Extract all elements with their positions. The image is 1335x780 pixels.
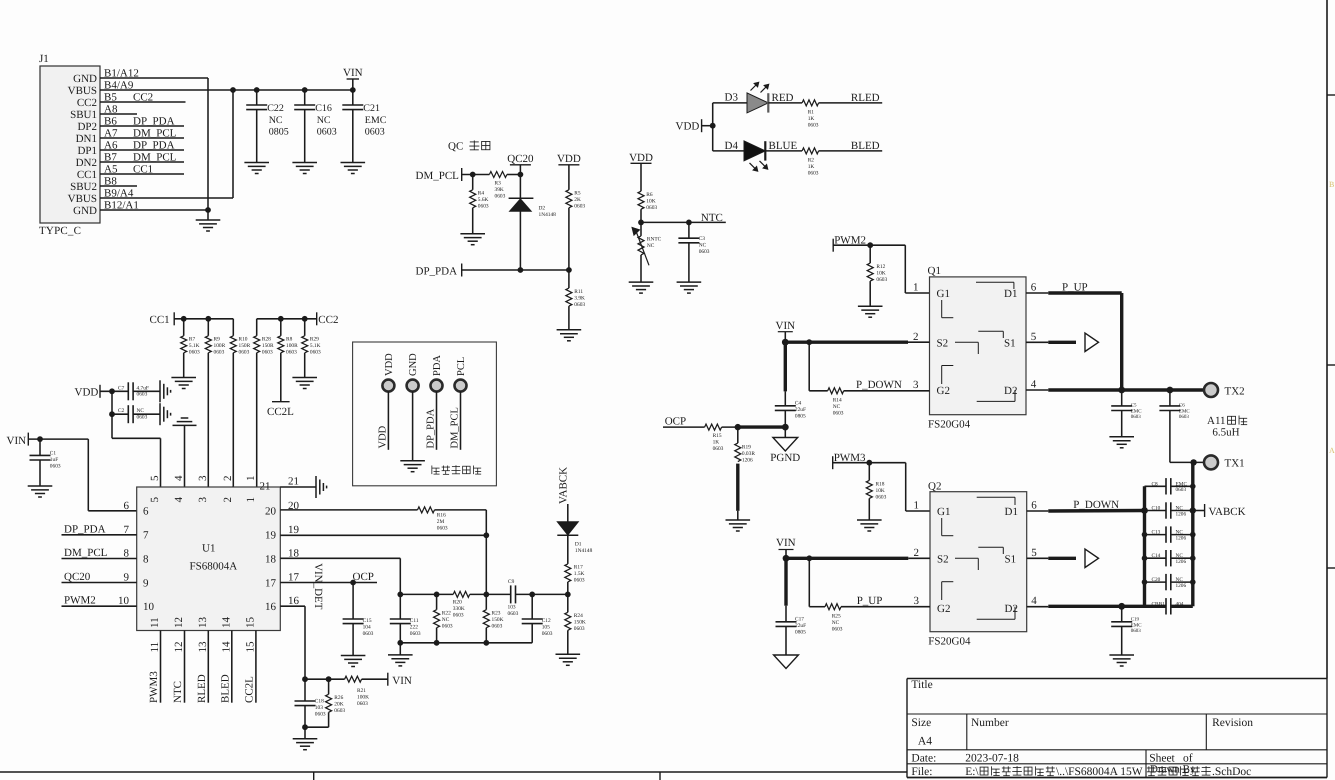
junction VBUS rail corner <box>230 87 236 93</box>
wire R16 to node <box>435 509 487 511</box>
svg-text:0805: 0805 <box>795 414 806 420</box>
svg-text:100K: 100K <box>357 695 369 701</box>
resistor R9 <box>207 319 209 336</box>
wire PWM3 to G1 <box>905 463 907 511</box>
Q2 internal graphics <box>977 496 1015 498</box>
svg-text:A4: A4 <box>918 736 932 748</box>
ground <box>556 653 581 655</box>
wire OCP thick <box>738 425 786 428</box>
capacitor C8 <box>1145 485 1167 487</box>
resistor R24 <box>567 594 569 612</box>
svg-text:U1: U1 <box>202 543 215 555</box>
svg-text:C18: C18 <box>315 699 324 705</box>
test point VDD <box>382 380 394 392</box>
svg-text:R7: R7 <box>189 337 196 343</box>
svg-text:330K: 330K <box>453 606 465 612</box>
resistor R7 <box>183 319 185 336</box>
ground (flipped) pin4 <box>173 424 197 426</box>
svg-text:103: 103 <box>508 605 516 611</box>
junction <box>181 316 187 322</box>
svg-text:1K: 1K <box>808 164 815 170</box>
test point PCL <box>455 380 467 392</box>
wire CC1 <box>174 318 233 320</box>
capacitor C12 <box>531 594 533 619</box>
resistor R8 <box>280 319 282 336</box>
IC U1 FS68004A <box>137 487 281 631</box>
svg-text:1K: 1K <box>713 440 720 446</box>
pin DP1 / A6 wire <box>100 149 184 151</box>
junction <box>302 724 308 730</box>
svg-text:B5: B5 <box>104 92 117 104</box>
svg-text:PDA: PDA <box>432 355 443 376</box>
wire cap bank right rail (thick) <box>1191 462 1194 606</box>
pin SBU2 / B8 wire <box>100 185 137 187</box>
svg-text:3.9K: 3.9K <box>574 296 585 302</box>
svg-text:R1: R1 <box>808 110 815 116</box>
ground <box>207 210 209 220</box>
junction <box>397 592 403 598</box>
junction <box>302 676 308 682</box>
junction <box>302 316 308 322</box>
ground <box>858 305 883 307</box>
svg-text:4: 4 <box>1031 379 1037 391</box>
svg-text:DP_PDA: DP_PDA <box>416 266 458 278</box>
svg-text:R6: R6 <box>646 192 653 198</box>
svg-text:R19: R19 <box>742 445 751 451</box>
programming reserve box <box>353 342 497 486</box>
svg-text:7: 7 <box>124 524 130 536</box>
resistor R16 <box>418 507 435 513</box>
svg-text:G2: G2 <box>937 603 950 615</box>
svg-text:Number: Number <box>971 717 1009 729</box>
svg-text:0603: 0603 <box>286 350 297 356</box>
svg-text:NC: NC <box>137 408 145 414</box>
svg-text:150K: 150K <box>492 617 504 623</box>
wire VIN to pin6 <box>87 439 89 511</box>
ground <box>293 738 318 740</box>
svg-text:C2: C2 <box>118 408 125 414</box>
svg-text:7: 7 <box>143 530 149 542</box>
port VIN <box>387 673 389 686</box>
svg-text:9: 9 <box>124 572 130 584</box>
svg-text:R4: R4 <box>478 191 485 197</box>
svg-text:104: 104 <box>363 625 371 631</box>
ground <box>341 655 366 657</box>
svg-text:0603: 0603 <box>137 392 148 398</box>
svg-text:CC1: CC1 <box>133 164 153 176</box>
wire BLED <box>819 150 883 152</box>
pin 11 wire (bottom) <box>160 631 162 703</box>
svg-text:FS20G04: FS20G04 <box>928 419 971 431</box>
ground <box>388 654 413 656</box>
svg-text:19: 19 <box>288 524 300 536</box>
svg-text:10K: 10K <box>876 488 885 494</box>
power ground PGND (Q1) <box>784 427 786 437</box>
svg-text:R20: R20 <box>453 600 462 606</box>
resistor R29 <box>304 319 306 336</box>
svg-text:1: 1 <box>913 282 919 294</box>
junction <box>735 424 741 430</box>
svg-text:D4: D4 <box>725 140 739 152</box>
svg-text:0603: 0603 <box>699 249 710 255</box>
svg-text:3: 3 <box>197 475 209 481</box>
svg-text:10K: 10K <box>876 271 885 277</box>
svg-text:S2: S2 <box>937 337 949 349</box>
svg-text:D3: D3 <box>725 92 739 104</box>
svg-text:5: 5 <box>1031 331 1037 343</box>
svg-text:CC1: CC1 <box>77 169 97 181</box>
pin 7 wire (left) <box>62 534 137 536</box>
svg-text:.SchDoc: .SchDoc <box>1212 766 1251 778</box>
junction <box>806 339 812 345</box>
wire pin2 column <box>232 353 234 487</box>
svg-text:105: 105 <box>542 625 550 631</box>
svg-text:CC2L: CC2L <box>243 676 255 703</box>
svg-text:NC: NC <box>699 243 707 249</box>
junction <box>1190 484 1196 490</box>
svg-text:QC20: QC20 <box>507 153 534 165</box>
svg-text:1: 1 <box>245 497 257 503</box>
svg-text:B4/A9: B4/A9 <box>104 80 134 92</box>
svg-text:A6: A6 <box>104 140 118 152</box>
svg-text:0603: 0603 <box>492 624 503 630</box>
svg-text:12: 12 <box>173 642 185 653</box>
junction <box>566 267 572 273</box>
capacitor C17 <box>776 621 797 623</box>
svg-text:1.5K: 1.5K <box>574 571 585 577</box>
wire PDA test point <box>436 391 438 450</box>
svg-text:150K: 150K <box>574 620 586 626</box>
svg-text:C21: C21 <box>363 103 380 114</box>
pin 15 wire (bottom) <box>255 631 257 703</box>
junction <box>518 172 524 178</box>
pin CC2 / B5 wire <box>100 101 186 103</box>
wire VIN to C4 (thick) <box>784 342 787 391</box>
svg-text:Size: Size <box>911 717 931 729</box>
wire P_DOWN gate <box>808 342 810 391</box>
svg-text:0805: 0805 <box>269 127 289 138</box>
wire NTC <box>641 221 726 223</box>
wire VDD to pin5 <box>111 414 113 438</box>
MOSFET Q2 FS20G04 <box>930 492 1027 632</box>
svg-text:R22: R22 <box>442 611 451 617</box>
pad TX1 <box>1204 455 1218 469</box>
wire DP_PDA <box>462 269 569 271</box>
svg-text:0603: 0603 <box>442 624 453 630</box>
capacitor C19 <box>1121 606 1123 622</box>
junction <box>1190 459 1196 465</box>
svg-text:0805: 0805 <box>795 630 806 636</box>
resistor R21 <box>345 676 362 682</box>
capacitor C9 <box>510 585 512 603</box>
svg-text:Q2: Q2 <box>928 481 941 493</box>
svg-text:VABCK: VABCK <box>1209 506 1246 518</box>
svg-text:File:: File: <box>911 766 932 778</box>
wire VDD to C2 <box>111 391 113 414</box>
svg-text:0603: 0603 <box>317 127 337 138</box>
resistor R25 <box>825 604 841 610</box>
svg-text:18: 18 <box>265 553 277 565</box>
label programming reserve (Chinese) <box>432 465 481 474</box>
wire OCP <box>663 426 705 428</box>
svg-text:16: 16 <box>265 601 277 613</box>
svg-text:15: 15 <box>244 617 256 629</box>
svg-text:0603: 0603 <box>542 631 553 637</box>
svg-text:0603: 0603 <box>437 526 448 532</box>
svg-text:DP_PDA: DP_PDA <box>426 408 437 448</box>
svg-text:R2: R2 <box>808 158 815 164</box>
svg-text:0603: 0603 <box>495 194 506 200</box>
svg-text:6: 6 <box>1031 500 1037 512</box>
test point GND <box>407 380 419 392</box>
ground <box>460 233 485 235</box>
wire PWM2 to G1 <box>904 245 906 293</box>
junction <box>483 640 489 646</box>
capacitor C6 <box>1169 390 1171 406</box>
svg-text:0603: 0603 <box>1179 414 1190 420</box>
wire to R2 <box>765 150 802 152</box>
pin 8 wire (left) <box>62 558 137 560</box>
svg-text:D1: D1 <box>575 542 582 548</box>
svg-text:NTC: NTC <box>172 681 184 703</box>
no-connect arrow S1 <box>1085 333 1099 351</box>
capacitor C13 <box>1145 534 1167 536</box>
svg-text:C22: C22 <box>267 103 284 114</box>
ground <box>341 162 366 164</box>
wire VDD test point <box>387 391 389 450</box>
pin 18 wire <box>280 557 400 559</box>
svg-text:2: 2 <box>913 331 919 343</box>
svg-text:S1: S1 <box>1005 553 1017 565</box>
svg-text:BLED: BLED <box>219 674 231 703</box>
svg-text:13: 13 <box>197 641 209 653</box>
ground <box>726 519 751 521</box>
svg-text:PWM2: PWM2 <box>64 595 96 607</box>
svg-text:3: 3 <box>913 379 919 391</box>
pin DN2 / B7 wire <box>100 161 184 163</box>
pin CC1 / A5 wire <box>100 173 184 175</box>
svg-text:FS20G04: FS20G04 <box>928 636 971 648</box>
junction <box>782 339 789 346</box>
wire VIN to C17 (thick) <box>784 558 787 605</box>
svg-text:C3: C3 <box>699 236 706 242</box>
pin 14 wire (bottom) <box>231 631 233 703</box>
svg-text:VDD: VDD <box>557 153 581 165</box>
svg-text:DP_PDA: DP_PDA <box>133 116 175 128</box>
svg-text:QC20: QC20 <box>64 571 91 583</box>
capacitor C1 <box>39 439 41 455</box>
junction <box>782 424 789 431</box>
ground <box>677 281 702 283</box>
svg-text:2: 2 <box>222 497 234 503</box>
LED D3 RED <box>713 102 747 104</box>
svg-text:NC: NC <box>442 617 450 623</box>
wire to VIN port <box>362 678 388 680</box>
svg-text:VDD: VDD <box>384 353 395 376</box>
svg-text:4: 4 <box>1031 595 1037 607</box>
svg-text:C1: C1 <box>50 451 57 457</box>
svg-text:21: 21 <box>288 476 299 488</box>
junction <box>867 242 873 248</box>
wire P_UP gate <box>808 558 810 606</box>
power ground PGND (Q2) <box>774 655 799 669</box>
svg-text:0603: 0603 <box>357 701 368 707</box>
svg-text:P_UP: P_UP <box>1062 282 1088 294</box>
svg-text:2023-07-18: 2023-07-18 <box>965 752 1019 764</box>
svg-text:0603: 0603 <box>713 446 724 452</box>
svg-text:TX1: TX1 <box>1225 458 1245 470</box>
svg-text:C12: C12 <box>542 618 551 624</box>
pin 21 wire <box>280 486 316 488</box>
svg-text:CC2: CC2 <box>77 97 97 109</box>
svg-text:EMC: EMC <box>1131 408 1143 414</box>
svg-text:SBU1: SBU1 <box>70 109 97 121</box>
resistor R15 <box>705 424 722 430</box>
svg-text:NC: NC <box>317 115 331 126</box>
junction <box>483 592 489 598</box>
wire pin4 column <box>184 425 186 487</box>
svg-text:C13: C13 <box>1152 530 1161 536</box>
svg-text:6: 6 <box>1031 282 1037 294</box>
svg-text:CBB1: CBB1 <box>1152 601 1166 607</box>
capacitor C20 <box>1145 581 1167 583</box>
junction <box>565 592 571 598</box>
svg-text:CC2: CC2 <box>133 92 153 104</box>
svg-text:CC2L: CC2L <box>267 406 294 418</box>
capacitor C15 <box>352 583 354 620</box>
svg-text:103: 103 <box>315 705 323 711</box>
pin 10 wire (left) <box>62 605 137 607</box>
wire CC2L stub <box>280 353 282 402</box>
svg-text:0603: 0603 <box>808 171 819 177</box>
wire VIN S2 (thick) <box>786 557 908 560</box>
resistor R2 <box>802 148 819 154</box>
wire D2 row (thick) <box>1027 606 1049 608</box>
junction <box>1142 555 1148 561</box>
junction <box>1190 507 1196 513</box>
resistor R28 <box>256 319 258 336</box>
svg-text:C8: C8 <box>1152 481 1159 487</box>
wire RLED <box>819 102 883 104</box>
svg-text:NC: NC <box>647 243 655 249</box>
svg-text:R9: R9 <box>214 337 221 343</box>
svg-text:G1: G1 <box>937 288 950 300</box>
svg-text:A11: A11 <box>1207 415 1226 427</box>
svg-text:R3: R3 <box>495 181 502 187</box>
junction <box>1142 532 1148 538</box>
wire D2 to TX2 (thick) <box>1026 389 1048 391</box>
Q1 internal graphics <box>976 281 1014 283</box>
svg-text:6: 6 <box>143 506 149 518</box>
svg-text:11: 11 <box>149 642 161 653</box>
svg-text:14: 14 <box>220 641 232 653</box>
svg-text:0603: 0603 <box>363 631 374 637</box>
svg-text:Title: Title <box>911 679 932 691</box>
pin 9 wire (left) <box>62 582 137 584</box>
wire CC2 <box>257 318 317 320</box>
svg-text:5.1K: 5.1K <box>310 343 321 349</box>
junction <box>205 316 211 322</box>
resistor R3 <box>489 172 507 178</box>
wire to R21 <box>305 678 345 680</box>
svg-text:11: 11 <box>149 617 161 628</box>
svg-text:PWM3: PWM3 <box>148 671 160 703</box>
svg-text:12: 12 <box>173 617 185 628</box>
junction <box>1118 603 1125 610</box>
svg-text:0603: 0603 <box>410 631 421 637</box>
svg-text:9: 9 <box>143 577 149 589</box>
resistor R20 <box>453 591 470 597</box>
pin 12 wire (bottom) <box>184 631 186 703</box>
svg-text:0603: 0603 <box>365 127 385 138</box>
svg-text:R15: R15 <box>713 433 722 439</box>
junction <box>1141 507 1148 514</box>
ground <box>28 485 53 487</box>
svg-text:D1: D1 <box>1004 288 1017 300</box>
pin 13 wire (bottom) <box>207 631 209 703</box>
capacitor C18 <box>304 679 306 701</box>
svg-text:5.6K: 5.6K <box>478 197 489 203</box>
svg-text:DN1: DN1 <box>76 133 97 145</box>
svg-text:VABCK: VABCK <box>558 467 570 504</box>
svg-text:PCL: PCL <box>456 357 467 376</box>
svg-text:R16: R16 <box>437 513 446 519</box>
svg-text:1206: 1206 <box>1176 535 1187 541</box>
svg-text:C20: C20 <box>1152 577 1161 583</box>
diode D1 1N4148 <box>557 522 578 535</box>
wire D1 P_UP (thick) <box>1026 292 1048 294</box>
resistor R1 <box>802 100 819 106</box>
thermistor RNTC <box>640 222 642 236</box>
junction <box>866 460 872 466</box>
svg-text:A: A <box>1329 446 1335 455</box>
svg-text:22uF: 22uF <box>795 407 806 413</box>
svg-text:1N4148: 1N4148 <box>539 212 557 218</box>
svg-text:R29: R29 <box>310 337 319 343</box>
svg-text:VDD: VDD <box>676 121 700 133</box>
svg-text:2: 2 <box>914 547 920 559</box>
svg-text:DN2: DN2 <box>76 157 97 169</box>
resistor R14 <box>828 388 844 394</box>
wire VDD to LEDs <box>712 103 714 151</box>
junction <box>529 592 535 598</box>
svg-text:A8: A8 <box>104 104 118 116</box>
svg-text:100R: 100R <box>214 343 226 349</box>
svg-text:GND: GND <box>73 73 97 85</box>
svg-text:0603: 0603 <box>508 611 519 617</box>
MOSFET Q1 FS20G04 <box>930 277 1027 415</box>
svg-text:R10: R10 <box>239 337 248 343</box>
svg-text:NC: NC <box>269 115 283 126</box>
resistor R6 <box>640 163 642 191</box>
svg-text:P_DOWN: P_DOWN <box>856 379 902 391</box>
svg-text:B8: B8 <box>104 176 117 188</box>
bottom row wire <box>400 642 532 644</box>
svg-text:3: 3 <box>914 595 920 607</box>
svg-text:VIN: VIN <box>7 435 27 447</box>
svg-text:DM_PCL: DM_PCL <box>133 128 177 140</box>
svg-text:R8: R8 <box>286 337 293 343</box>
wire PWM3 <box>833 462 906 464</box>
svg-text:CC2: CC2 <box>318 314 338 326</box>
svg-text:R28: R28 <box>262 337 271 343</box>
wire pin1 column <box>256 353 258 487</box>
resistor R4 <box>472 175 474 190</box>
wire GND test point <box>412 391 414 461</box>
capacitor C4 <box>775 405 796 407</box>
test point PDA <box>431 380 443 392</box>
junction <box>1190 579 1196 585</box>
